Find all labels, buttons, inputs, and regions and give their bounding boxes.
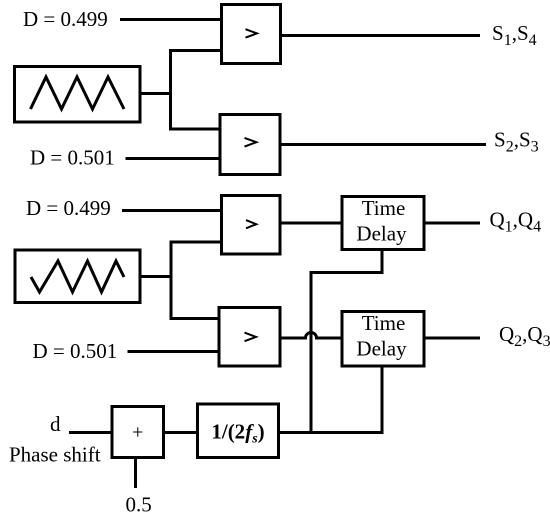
svg-text:Delay: Delay [356, 337, 407, 361]
comparator U4 symbol > [245, 333, 257, 342]
triangle-wave generator G1 waveform [31, 77, 125, 109]
wire D=0.499 to comparator 1 upper input [120, 18, 222, 21]
comparator U1 box [222, 5, 281, 64]
wire d to summing junction [69, 431, 112, 434]
wire comparator 3 output to time delay 1 [280, 222, 342, 225]
triangle-wave generator G2 waveform [31, 261, 124, 292]
svg-text:Delay: Delay [356, 222, 407, 246]
comparator U4 box [219, 308, 280, 367]
triangle-wave generator G1 box [15, 67, 141, 123]
svg-text:+: + [132, 422, 143, 444]
wire G2 output to branch node [140, 275, 171, 278]
comparator U2 box [220, 115, 280, 175]
svg-text:D = 0.499: D = 0.499 [23, 7, 108, 31]
wire branch to comparator 3 lower input [170, 241, 222, 244]
svg-text:Phase shift: Phase shift [9, 443, 101, 467]
wire G1 output to branch node [140, 92, 171, 95]
svg-text:Time: Time [362, 196, 406, 220]
svg-text:Time: Time [362, 311, 406, 335]
wire branch to comparator 1 lower input [169, 49, 222, 52]
wire branch to comparator 4 upper input [170, 317, 220, 320]
wire summing junction to 1/(2fs) block [164, 431, 198, 434]
triangle-wave generator G2 box [15, 250, 140, 303]
wire D=0.501 to comparator 4 lower input [128, 350, 220, 353]
svg-text:0.5: 0.5 [126, 493, 152, 517]
wire branch vertical (G1 to U1/U2) [169, 49, 172, 131]
comparator U2 symbol > [245, 138, 257, 147]
wire D=0.501 to comparator 2 lower input [126, 157, 221, 160]
summing junction A1 box [112, 407, 164, 458]
delay-time block 1/(2fs) box [198, 404, 279, 458]
wire time delay 1 feedback (down, left, down to delay bus) [311, 250, 382, 434]
wire time delay 2 output [424, 337, 480, 340]
comparator U3 box [222, 196, 281, 255]
svg-text:D = 0.499: D = 0.499 [26, 196, 111, 220]
wire 0.5 to summing junction [134, 458, 137, 489]
time delay block TD2 box [342, 312, 424, 367]
svg-text:D = 0.501: D = 0.501 [30, 146, 115, 170]
svg-text:d: d [50, 412, 61, 436]
wire comparator 2 output [280, 143, 486, 146]
wire delay bus (1/(2fs) output to both time delays) [279, 431, 384, 434]
wire branch vertical (G2 to U3/U4) [170, 241, 173, 321]
wire time delay 1 output [424, 222, 480, 225]
wire D=0.499 to comparator 3 upper input [122, 209, 222, 212]
wire branch to comparator 2 upper input [169, 128, 220, 131]
comparator U1 symbol > [246, 29, 258, 37]
svg-text:Q2,Q3: Q2,Q3 [499, 322, 550, 350]
wire time delay 2 to delay bus [381, 366, 384, 434]
time delay block TD1 box [342, 197, 424, 250]
svg-text:D = 0.501: D = 0.501 [33, 339, 118, 363]
wire comparator 1 output [281, 34, 481, 37]
comparator U3 symbol > [246, 220, 256, 228]
wire comparator 4 output to time delay 2 (with hop) [280, 333, 342, 339]
